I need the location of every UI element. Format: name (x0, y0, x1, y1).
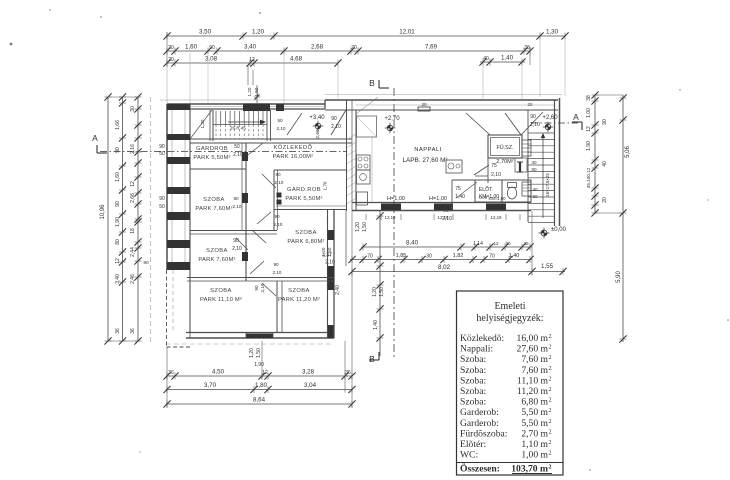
svg-text:60: 60 (531, 167, 537, 172)
svg-text:40: 40 (532, 187, 538, 192)
svg-text:2: 2 (549, 419, 552, 425)
svg-text:2,16: 2,16 (130, 144, 136, 154)
svg-text:1,20: 1,20 (355, 222, 361, 232)
svg-text:20: 20 (421, 102, 427, 107)
svg-text:PARK 6,80M²: PARK 6,80M² (287, 239, 324, 245)
svg-text:38: 38 (524, 45, 530, 51)
svg-text:50: 50 (159, 151, 165, 157)
svg-text:20: 20 (168, 45, 174, 51)
svg-text:Szoba:: Szoba: (460, 397, 486, 408)
svg-text:50: 50 (277, 118, 283, 123)
svg-text:PARK 7,60M²: PARK 7,60M² (198, 257, 235, 263)
svg-text:+2,70: +2,70 (384, 116, 400, 122)
svg-text:1,90: 1,90 (586, 141, 592, 151)
svg-text:Közlekedõ:: Közlekedõ: (460, 333, 504, 344)
svg-text:KM=1,00: KM=1,00 (489, 196, 507, 201)
svg-text:Garderob:: Garderob: (460, 407, 499, 418)
svg-text:60: 60 (532, 194, 538, 199)
svg-text:2,44: 2,44 (130, 247, 136, 257)
svg-text:1,50: 1,50 (362, 222, 368, 232)
svg-text:8,64: 8,64 (253, 397, 266, 404)
svg-text:2: 2 (549, 387, 552, 393)
svg-text:Garderob:: Garderob: (460, 418, 499, 429)
svg-text:90: 90 (159, 144, 165, 150)
svg-text:5,90: 5,90 (616, 271, 622, 283)
svg-text:5,06: 5,06 (625, 146, 631, 158)
svg-text:1,90: 1,90 (254, 362, 264, 368)
svg-text:4,50: 4,50 (212, 369, 225, 376)
svg-text:12,19: 12,19 (491, 215, 503, 220)
svg-text:NAPPALI: NAPPALI (414, 147, 442, 153)
svg-text:2,10: 2,10 (277, 126, 286, 131)
svg-text:2,68: 2,68 (311, 44, 324, 51)
svg-text:1,10 m: 1,10 m (521, 439, 548, 450)
svg-text:SZOBA: SZOBA (288, 288, 310, 294)
svg-text:40: 40 (602, 161, 608, 167)
svg-text:16×17,5×29: 16×17,5×29 (545, 173, 550, 197)
svg-text:2: 2 (549, 429, 552, 435)
svg-text:PARK 11,10 M²: PARK 11,10 M² (200, 297, 242, 303)
svg-text:20: 20 (168, 57, 174, 63)
svg-text:2,70 m: 2,70 m (521, 428, 548, 439)
svg-text:5,50 m: 5,50 m (521, 407, 548, 418)
svg-text:2: 2 (549, 398, 552, 404)
svg-text:1,85: 1,85 (396, 253, 407, 259)
svg-text:20: 20 (602, 197, 608, 203)
svg-text:90: 90 (331, 116, 337, 122)
svg-text:1,40: 1,40 (501, 55, 514, 62)
svg-text:Elõtér:: Elõtér: (460, 439, 486, 450)
svg-text:PARK 5,50M²: PARK 5,50M² (285, 196, 322, 202)
svg-text:H=1,00: H=1,00 (429, 196, 447, 202)
svg-text:3,04: 3,04 (304, 382, 317, 389)
svg-text:+3,40: +3,40 (309, 115, 325, 121)
svg-text:1,66: 1,66 (115, 120, 121, 130)
svg-text:KÖZLEKEDÕ: KÖZLEKEDÕ (273, 144, 312, 151)
svg-text:36: 36 (130, 328, 136, 334)
svg-text:10,96: 10,96 (100, 204, 106, 220)
svg-text:70: 70 (367, 254, 373, 260)
svg-text:11,10 m: 11,10 m (517, 375, 549, 386)
svg-text:SZOBA: SZOBA (206, 248, 228, 254)
svg-text:1,20: 1,20 (321, 247, 326, 256)
svg-text:36: 36 (345, 370, 351, 376)
svg-text:1,14: 1,14 (473, 241, 483, 247)
svg-text:1,90: 1,90 (115, 217, 121, 227)
svg-text:1,20: 1,20 (372, 287, 378, 297)
svg-text:50: 50 (234, 144, 240, 150)
svg-text:11,20 m: 11,20 m (517, 386, 549, 397)
svg-text:90: 90 (602, 119, 608, 125)
svg-text:90: 90 (505, 241, 511, 246)
svg-text:2,10: 2,10 (232, 246, 242, 252)
svg-text:3,40: 3,40 (244, 44, 257, 51)
svg-text:1,40: 1,40 (509, 253, 520, 259)
svg-text:12: 12 (249, 57, 255, 63)
svg-text:1,20: 1,20 (249, 348, 255, 358)
svg-text:12,19: 12,19 (438, 215, 450, 220)
svg-text:1,50: 1,50 (327, 247, 332, 256)
svg-text:2,10: 2,10 (273, 270, 282, 275)
svg-text:20: 20 (528, 102, 533, 107)
svg-text:90: 90 (209, 45, 215, 51)
svg-text:90: 90 (159, 196, 165, 202)
svg-text:1,00: 1,00 (586, 108, 592, 118)
svg-text:1,60: 1,60 (115, 172, 121, 182)
svg-text:45,100,12: 45,100,12 (586, 167, 591, 188)
svg-text:2: 2 (549, 345, 552, 351)
svg-text:8,40: 8,40 (406, 240, 419, 247)
svg-text:Fürdõszoba:: Fürdõszoba: (460, 428, 507, 439)
svg-text:2: 2 (549, 465, 552, 471)
svg-text:1,20: 1,20 (252, 29, 265, 36)
svg-text:2,40: 2,40 (335, 285, 341, 295)
svg-text:PARK 7,60M²: PARK 7,60M² (195, 206, 232, 212)
svg-text:2,10: 2,10 (274, 222, 283, 227)
svg-text:30: 30 (426, 254, 432, 260)
svg-text:26·R·45: 26·R·45 (230, 126, 246, 131)
svg-text:2,46: 2,46 (130, 274, 136, 284)
svg-text:A: A (573, 112, 579, 122)
svg-text:1,30: 1,30 (200, 119, 205, 128)
svg-text:5,50 m: 5,50 m (521, 418, 548, 429)
svg-text:2: 2 (549, 366, 552, 372)
svg-text:SZOBA: SZOBA (203, 197, 225, 203)
svg-text:1,30: 1,30 (546, 29, 559, 36)
svg-text:12: 12 (586, 126, 592, 132)
svg-text:FÜ.SZ.: FÜ.SZ. (496, 144, 513, 151)
svg-text:90: 90 (254, 285, 259, 291)
svg-text:6,80 m: 6,80 m (521, 397, 548, 408)
svg-text:1,40: 1,40 (455, 194, 465, 200)
svg-text:Szoba:: Szoba: (460, 375, 486, 386)
svg-text:3,28: 3,28 (302, 369, 315, 376)
svg-text:2,10: 2,10 (530, 122, 540, 128)
svg-text:U=0: U=0 (479, 195, 487, 200)
svg-text:3,50: 3,50 (199, 29, 212, 36)
svg-text:Nappali:: Nappali: (460, 344, 493, 355)
svg-text:4,68: 4,68 (290, 56, 303, 63)
svg-text:1,70: 1,70 (323, 181, 328, 190)
svg-text:20: 20 (351, 45, 357, 51)
svg-text:90: 90 (115, 147, 121, 153)
svg-text:36: 36 (115, 328, 121, 334)
svg-text:40: 40 (483, 56, 489, 62)
svg-text:50: 50 (159, 204, 165, 210)
svg-text:75: 75 (491, 163, 497, 169)
svg-text:7,60 m: 7,60 m (521, 354, 548, 365)
svg-text:90: 90 (143, 260, 149, 266)
svg-text:7,69: 7,69 (425, 44, 438, 51)
svg-text:38: 38 (523, 241, 529, 246)
svg-text:B: B (369, 354, 375, 364)
svg-text:12: 12 (115, 258, 121, 264)
svg-text:3,08: 3,08 (205, 56, 218, 63)
svg-text:2,66: 2,66 (130, 193, 136, 203)
svg-text:3,40: 3,40 (115, 274, 121, 284)
svg-text:SZOBA: SZOBA (210, 288, 232, 294)
svg-text:helyiségjegyzék:: helyiségjegyzék: (476, 313, 543, 324)
svg-text:90: 90 (115, 201, 121, 207)
svg-text:PARK 11,20 M²: PARK 11,20 M² (278, 297, 320, 303)
svg-text:Szoba:: Szoba: (460, 386, 486, 397)
svg-text:1,20: 1,20 (247, 87, 252, 96)
svg-text:12,01: 12,01 (399, 29, 415, 36)
svg-text:80: 80 (115, 239, 121, 245)
svg-text:1,82: 1,82 (453, 253, 464, 259)
svg-text:Szoba:: Szoba: (460, 354, 486, 365)
svg-text:PARK 16,00M²: PARK 16,00M² (273, 154, 314, 160)
svg-text:40: 40 (531, 160, 537, 165)
svg-text:2,70M²: 2,70M² (496, 159, 514, 165)
svg-text:90: 90 (275, 172, 281, 177)
svg-text:PARK 5,50M²: PARK 5,50M² (193, 155, 230, 161)
svg-text:2: 2 (549, 376, 552, 382)
svg-text:Szoba:: Szoba: (460, 365, 486, 376)
svg-text:1,80: 1,80 (255, 382, 268, 389)
svg-text:H=1,00: H=1,00 (387, 196, 405, 202)
svg-text:2: 2 (549, 408, 552, 414)
svg-text:90: 90 (274, 214, 280, 219)
svg-text:2,10: 2,10 (491, 172, 501, 178)
svg-text:B: B (369, 78, 375, 88)
svg-text:36: 36 (168, 370, 174, 376)
svg-text:1,55: 1,55 (541, 263, 554, 270)
svg-text:2: 2 (549, 451, 552, 457)
svg-text:103,70 m: 103,70 m (511, 464, 548, 475)
svg-text:1,50: 1,50 (379, 287, 385, 297)
svg-text:GARDROB: GARDROB (196, 146, 228, 152)
svg-text:2,10: 2,10 (233, 152, 243, 158)
svg-text:1,40: 1,40 (373, 320, 379, 330)
svg-text:70: 70 (489, 254, 495, 260)
svg-text:2,10: 2,10 (331, 124, 341, 130)
svg-text:38: 38 (586, 95, 592, 101)
svg-text:1,50: 1,50 (256, 348, 262, 358)
svg-text:27,60 m: 27,60 m (517, 344, 549, 355)
svg-text:+2,60: +2,60 (542, 115, 558, 121)
svg-text:1,60: 1,60 (185, 44, 198, 51)
svg-text:12,19: 12,19 (385, 215, 397, 220)
svg-text:A: A (92, 133, 98, 143)
svg-text:2: 2 (549, 440, 552, 446)
svg-text:GARD.ROB: GARD.ROB (287, 187, 321, 193)
svg-text:18: 18 (130, 228, 136, 234)
svg-text:8,02: 8,02 (438, 264, 451, 271)
svg-text:90: 90 (530, 114, 536, 120)
svg-text:90: 90 (233, 238, 239, 244)
svg-text:16,00 m: 16,00 m (517, 333, 549, 344)
svg-text:12: 12 (493, 241, 499, 246)
svg-text:Összesen:: Összesen: (460, 462, 500, 475)
svg-text:7,60 m: 7,60 m (521, 365, 548, 376)
svg-text:3,70: 3,70 (204, 382, 217, 389)
svg-text:12: 12 (130, 181, 136, 187)
svg-text:2,10: 2,10 (260, 283, 265, 292)
svg-text:WC:: WC: (460, 450, 478, 461)
svg-text:2,10: 2,10 (275, 180, 284, 185)
svg-text:90: 90 (233, 196, 239, 201)
svg-text:30: 30 (130, 106, 136, 112)
svg-text:2,10: 2,10 (233, 204, 242, 209)
svg-text:1,00 m: 1,00 m (521, 450, 548, 461)
svg-text:2: 2 (549, 355, 552, 361)
svg-text:90: 90 (273, 262, 279, 267)
svg-text:±0,00: ±0,00 (551, 227, 567, 233)
svg-text:2: 2 (549, 334, 552, 340)
svg-text:Emeleti: Emeleti (494, 301, 525, 312)
svg-text:LAPB. 27,60 M²: LAPB. 27,60 M² (402, 157, 447, 164)
svg-text:SZOBA: SZOBA (295, 230, 317, 236)
svg-text:12: 12 (262, 370, 268, 376)
svg-text:75: 75 (455, 186, 461, 192)
svg-text:ELÕT.: ELÕT. (479, 186, 493, 193)
